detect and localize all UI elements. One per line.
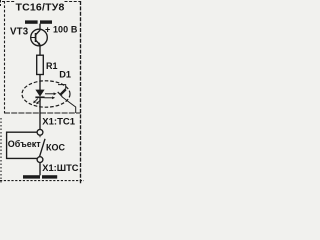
photodetector diode body [60, 89, 65, 94]
+100V supply bus bar (left segment) [25, 20, 38, 23]
wire terminal X1:ШТС to bottom bus [39, 163, 41, 176]
terminal X1:ШТС circle [37, 157, 43, 163]
photodetector top lead [58, 85, 66, 90]
svg-text:+ 100 В: + 100 В [45, 25, 78, 35]
switch contact КОС lever [40, 139, 45, 157]
svg-text:ТС16/ТУ8: ТС16/ТУ8 [16, 2, 65, 14]
bottom bus bar (left segment) [23, 175, 40, 178]
optical coupling arrow 1 [45, 93, 54, 95]
module dashed border left edge [4, 1, 6, 113]
transistor VT3 base bar [35, 33, 37, 42]
bottom bus bar (right segment) [42, 175, 57, 178]
svg-text:КОС: КОС [46, 143, 65, 153]
background paper [0, 0, 84, 184]
transistor VT3 circle [31, 29, 48, 46]
transistor VT3 base lead [31, 37, 36, 39]
module dashed border top edge (right segment) [65, 1, 81, 3]
photodetector output lead (curves to module edge) [62, 97, 76, 113]
svg-text:D1: D1 [59, 70, 71, 80]
+100V supply bus bar (right segment) [40, 20, 52, 23]
module border bottom edge [4, 112, 81, 114]
terminal X1:ТС1 circle [37, 129, 43, 135]
optocoupler LED triangle [35, 90, 44, 97]
transistor VT3 emitter lead with arrow [36, 40, 40, 45]
optical coupling arrow 2 [45, 97, 53, 99]
svg-text:R1: R1 [46, 61, 58, 71]
LED emission arrow 2 [37, 100, 41, 104]
optocoupler LED cathode bar [35, 96, 44, 98]
wire LED cathode down through module edge to terminal [39, 98, 41, 130]
LED emission arrow 1 [34, 99, 38, 103]
wire bus bar to VT3 collector [39, 24, 41, 30]
svg-text:VT3: VT3 [10, 26, 29, 37]
wire R1 to LED of D1 [39, 75, 41, 91]
lower-left dotted boundary [0, 118, 2, 184]
module dashed border right edge (runs full height) [80, 1, 82, 184]
wire VT3 emitter to R1 [39, 45, 41, 55]
optocoupler D1 dashed ellipse [22, 81, 70, 107]
object box Объект (open right side) [7, 132, 37, 158]
svg-text:X1:ТС1: X1:ТС1 [42, 117, 75, 128]
resistor R1 body [37, 55, 44, 74]
photodetector bar [58, 92, 63, 97]
bottom dashed boundary line [0, 180, 84, 182]
stub below terminal X1:ТС1 [39, 135, 41, 137]
svg-text:X1:ШТС: X1:ШТС [42, 163, 78, 173]
svg-text:Объект: Объект [8, 139, 42, 149]
module dashed border top edge (left segment) [2, 1, 15, 3]
page edge tick top-left [0, 0, 2, 6]
transistor VT3 collector lead [36, 30, 40, 35]
